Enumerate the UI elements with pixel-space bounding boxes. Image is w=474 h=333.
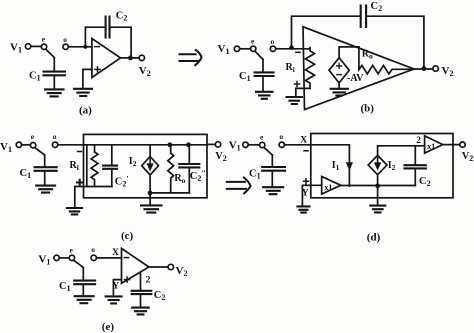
svg-text:x1: x1 [324,183,332,192]
svg-text:C2′: C2′ [115,175,129,189]
junction bottom rail (c) [148,191,153,196]
switch contact e (d) [260,142,265,147]
wire C1 to ground (c) [44,171,46,185]
svg-text:(c): (c) [121,230,134,242]
svg-text:V2: V2 [215,151,227,163]
wire output (b) [414,68,433,70]
terminal V1 (b) [234,46,239,51]
switch contact e (e) [69,255,74,260]
input network left side wire (c) [86,145,88,187]
buffer amp x1 input side (d) [322,177,341,195]
wire Ro to output (b) [393,68,414,70]
current arrow inside I2 (d) [377,158,379,163]
svg-text:V1: V1 [218,43,230,56]
junction Ro top (c) [168,142,173,147]
svg-text:C2: C2 [154,290,166,302]
plus input mark (a) [95,67,100,72]
svg-text:o: o [271,37,275,46]
wire Ri bottom to ground (b) [296,88,310,96]
ground below C1 (c) [36,186,55,193]
controlled source I2 (c) [142,156,159,175]
svg-text:Ri: Ri [286,62,295,74]
wire I2 top to rail (c) [149,145,151,157]
terminal V1 (d) [243,142,248,147]
svg-text:C2″: C2″ [190,169,206,183]
controlled source -AV (b) [329,58,349,83]
svg-text:Ro: Ro [174,173,185,185]
terminal V2 (a) [139,55,144,60]
wire buffer1 output rail (d) [341,185,416,187]
terminal o to op-amp (a) [63,44,68,49]
svg-text:V1: V1 [0,141,12,154]
wire I2 bottom (c) [149,175,151,193]
minus mark inside source (b) [337,74,341,76]
wire o to node X (d) [285,144,311,146]
wire plus input to ground (a) [83,69,92,87]
plus polarity mark Y (d) [304,179,309,184]
terminal o (d) [279,142,284,147]
capacitor C2p (c) [103,166,117,169]
switch arm (d) [264,147,272,154]
wire C1 to ground (b) [262,76,264,91]
ground at Y (e) [106,296,122,303]
wire output (a) [121,57,140,59]
switch contact e (c) [30,143,35,148]
wire o to op-amp inverting input (a) [68,46,92,48]
terminal o (b) [270,46,275,51]
resistor Ro (c) [168,145,174,193]
wire V1 to switch (c) [22,144,31,146]
svg-text:-AV: -AV [347,73,364,84]
svg-text:I1: I1 [332,160,340,172]
svg-text:Ri: Ri [70,160,79,172]
controlled source I2 (d) [368,155,387,174]
svg-text:(e): (e) [102,321,115,333]
minus mark node X (d) [304,150,308,152]
wire I2 top to node 2 rail (d) [378,146,425,156]
svg-text:V2: V2 [442,65,454,78]
capacitor C2 (d) [405,165,426,168]
svg-text:o: o [279,132,283,141]
capacitor C1 (c) [35,167,57,171]
ground below C1 (b) [256,92,273,99]
capacitor C2p branch wire bottom (c) [111,169,113,187]
plus polarity mark (b) [295,82,300,87]
op-amp macromodel triangle (b) [303,27,414,110]
wire junction up to C2 (b) [292,16,361,47]
wire C1 to ground (d) [271,171,273,187]
switch arm (b) [255,51,263,59]
macromodel box (d) [311,134,453,198]
terminal V2 (b) [433,66,438,71]
svg-text:V2: V2 [139,65,151,78]
current arrow I1 (d) [346,162,353,171]
capacitor C1 (e) [74,281,95,285]
svg-text:V2: V2 [176,265,188,278]
capacitor C1 (d) [262,167,285,171]
output junction (a) [128,56,133,61]
svg-text:C2: C2 [116,11,128,23]
svg-text:2: 2 [146,276,151,286]
svg-text:Ro: Ro [362,48,373,60]
implication arrow row1 [180,54,198,61]
wire C2 top stub (d) [414,146,416,165]
macromodel box (c) [84,134,208,197]
wire source top to Ro (b) [339,47,359,58]
svg-text:I2: I2 [388,160,396,172]
wire switch to C1 (a) [53,58,55,71]
wire switch to C1 (b) [262,59,264,71]
svg-text:e: e [251,37,255,46]
ground below Ri (b) [287,97,303,104]
switch arm (a) [46,49,55,57]
svg-text:I2: I2 [129,156,137,168]
svg-text:(a): (a) [79,105,92,117]
terminal o (c) [52,142,57,147]
svg-text:Y: Y [112,282,119,292]
svg-text:C1: C1 [29,71,41,83]
switch arm (e) [74,260,83,267]
wire switch to C1 (d) [271,155,273,166]
svg-text:C1: C1 [249,168,261,180]
buffer amp x1 output side (d) [425,136,443,153]
wire V1 to switch (a) [31,45,42,47]
plus input mark (e) [125,277,130,282]
resistor Ri (c) [91,145,98,187]
wire C2 to output (a) [110,27,132,58]
wire output (e) [149,266,168,268]
capacitor C2 (b) [361,5,366,27]
wire node 2 to C2 (e) [140,272,142,290]
wire switch to C1 (c) [44,155,46,167]
minus mark input (b) [296,51,300,53]
current arrow inside I2 (c) [149,159,151,164]
capacitor C1 (a) [44,72,66,76]
output junction (b) [422,66,427,71]
minus input mark (a) [95,46,100,48]
wire junction to ground (d) [377,186,379,205]
minus mark input (c) [78,151,82,153]
junction C2s top (c) [186,142,191,147]
wire o to node X (e) [96,257,121,259]
switch contact e (a) [41,44,46,49]
wire C1 to ground (e) [82,284,84,295]
ground below C1 (e) [75,296,94,303]
switch arm (c) [35,148,45,155]
svg-text:e: e [260,132,264,141]
svg-text:x1: x1 [427,142,435,151]
wire V1 to switch (b) [240,48,251,50]
ground at input port (c) [67,208,82,214]
junction bottom rail (d) [375,183,380,188]
resistor Ro (b) [359,47,392,74]
svg-text:Y: Y [302,188,309,198]
wire C1 to ground (a) [53,75,55,88]
op-amp U2 (e) [122,248,149,283]
terminal V2 (c) [215,142,220,147]
input port bottom rail (c) [84,186,112,188]
wire box to terminal V2 (c) [207,143,215,145]
svg-text:V1: V1 [229,139,241,152]
ground below box (d) [370,206,385,213]
wire V1 to switch (d) [248,144,259,146]
svg-text:V1: V1 [10,42,22,55]
wire V1 to switch (e) [59,257,69,259]
output port bottom rail (c) [150,192,189,194]
wire switch to C1 (e) [82,267,84,280]
wire junction up to C2 (a) [85,27,105,47]
svg-text:C1: C1 [59,281,71,293]
svg-text:e: e [42,35,46,44]
svg-text:o: o [63,35,67,44]
terminal V1 (a) [25,44,30,49]
wire C2 to ground (e) [140,294,142,307]
wire bottom rail to ground (c) [75,187,84,208]
plus mark inside source (b) [337,64,342,69]
svg-text:2: 2 [416,136,421,146]
svg-text:(b): (b) [361,103,375,115]
svg-text:(d): (d) [367,232,381,244]
svg-text:e: e [70,245,74,254]
wire C2 bottom stub (d) [414,168,416,185]
svg-text:C1: C1 [20,168,32,180]
capacitor C1 (b) [255,72,274,76]
junction summing node (a) [83,45,87,49]
terminal V2 (d) [460,142,465,147]
ground below C1 (a) [45,89,64,96]
minus input mark (e) [124,257,128,259]
svg-text:C2: C2 [419,176,431,188]
junction input node (b) [289,45,294,50]
capacitor C2p branch wire top (c) [111,145,113,165]
svg-text:V2: V2 [462,151,474,163]
svg-text:X: X [112,248,119,258]
ground below C1 (d) [263,187,283,194]
terminal V1 (c) [16,142,21,147]
terminal V1 (e) [54,255,59,260]
terminal V2 (e) [168,264,173,269]
svg-text:C2: C2 [371,1,383,13]
wire source bottom to ground (b) [338,83,340,88]
wire plus input to ground (e) [113,280,121,296]
capacitor C2s branch bottom (c) [188,167,190,193]
svg-text:X: X [300,136,307,146]
capacitor C2 (a) [106,17,110,38]
wire C2 to output (b) [366,16,424,68]
ground below source (b) [331,89,348,96]
wire bottom rail to ground (c) [149,193,151,205]
svg-text:o: o [53,132,57,141]
svg-text:C1: C1 [239,71,251,83]
capacitor C2s branch top (c) [188,145,190,163]
wire buffer1 input to Y (d) [302,185,321,206]
terminal o (e) [91,255,96,260]
wire X into box with I1 (d) [311,145,350,186]
op-amp U1 (a) [92,39,121,78]
implication arrow row2 [227,182,246,189]
wire o to macromodel input (b) [276,48,310,50]
capacitor C2 (e) [132,291,152,294]
wire buffer2 output (d) [443,144,460,146]
ground at Y (d) [298,206,310,212]
switch contact e (b) [251,46,256,51]
wire I2 bottom (d) [377,175,379,186]
ground at output port (c) [141,205,162,212]
ground at plus input (a) [74,89,92,96]
svg-text:V1: V1 [38,254,50,267]
plus polarity mark (c) [77,180,82,185]
ground below C2 (e) [132,308,149,315]
resistor Ri (b) [306,48,315,89]
capacitor C2s (c) [179,164,199,167]
svg-text:o: o [91,245,95,254]
wire o into box top rail (c) [58,144,207,146]
svg-text:e: e [31,132,35,141]
